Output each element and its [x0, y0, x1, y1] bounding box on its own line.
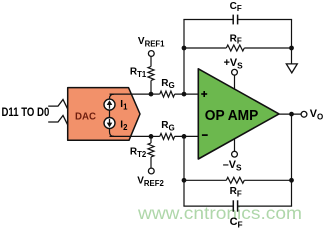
- svg-text:D11 TO D0: D11 TO D0: [2, 105, 50, 119]
- DAC body: [68, 88, 140, 141]
- current source I1: [104, 99, 115, 110]
- wire bottom CF row right segment: [238, 205, 293, 207]
- resistor RG (bottom): [151, 133, 199, 139]
- wire -VS stub: [234, 139, 236, 152]
- svg-text:OP AMP: OP AMP: [205, 108, 259, 124]
- bus arrow upper stroke: [48, 100, 68, 110]
- bus arrow lower stroke: [48, 116, 68, 126]
- node +input/feedback: [182, 92, 187, 97]
- resistor RG (top): [151, 91, 199, 97]
- terminal VO: [301, 111, 307, 117]
- wire +VS stub: [234, 75, 236, 89]
- node top-left RF junction: [182, 46, 187, 51]
- wire top CF row right segment: [238, 19, 293, 21]
- terminal -VS: [232, 151, 238, 157]
- wire DAC bottom output: [110, 135, 152, 137]
- wire top right vertical: [291, 20, 293, 65]
- node -input/feedback: [182, 134, 187, 139]
- node top-right RF junction: [289, 46, 294, 51]
- wire DAC internal vertical with rounded corners: [110, 94, 115, 136]
- node output junction: [289, 112, 294, 117]
- wire DAC top output: [110, 93, 152, 95]
- wire top feedback left vertical: [183, 20, 185, 95]
- capacitor CF (top): [233, 15, 237, 25]
- node bottom-left RF junction: [182, 178, 187, 183]
- op-amp minus input sign: [202, 134, 208, 136]
- terminal VREF2: [148, 168, 154, 174]
- terminal VREF1: [148, 51, 154, 57]
- node bottom-right RF junction: [289, 178, 294, 183]
- terminal +VS: [232, 69, 238, 75]
- wire bottom feedback right vertical: [291, 114, 293, 206]
- node RT2/RG: [149, 134, 154, 139]
- ground: [286, 64, 297, 73]
- wire top CF row left segment: [183, 19, 233, 21]
- current source I2: [104, 118, 115, 129]
- wire bottom CF row left segment: [183, 205, 233, 207]
- op-amp plus input sign: [201, 91, 207, 97]
- node RT1/RG: [149, 92, 154, 97]
- svg-text:DAC: DAC: [75, 111, 96, 123]
- wire output: [278, 113, 301, 115]
- capacitor CF (bottom): [233, 200, 237, 211]
- resistor RT1: [148, 56, 154, 94]
- resistor RT2: [148, 136, 154, 168]
- resistor RF (bottom): [184, 177, 292, 183]
- op-amp U1: [198, 69, 279, 159]
- resistor RF (top): [184, 45, 292, 51]
- wire bottom feedback left vertical: [183, 136, 185, 206]
